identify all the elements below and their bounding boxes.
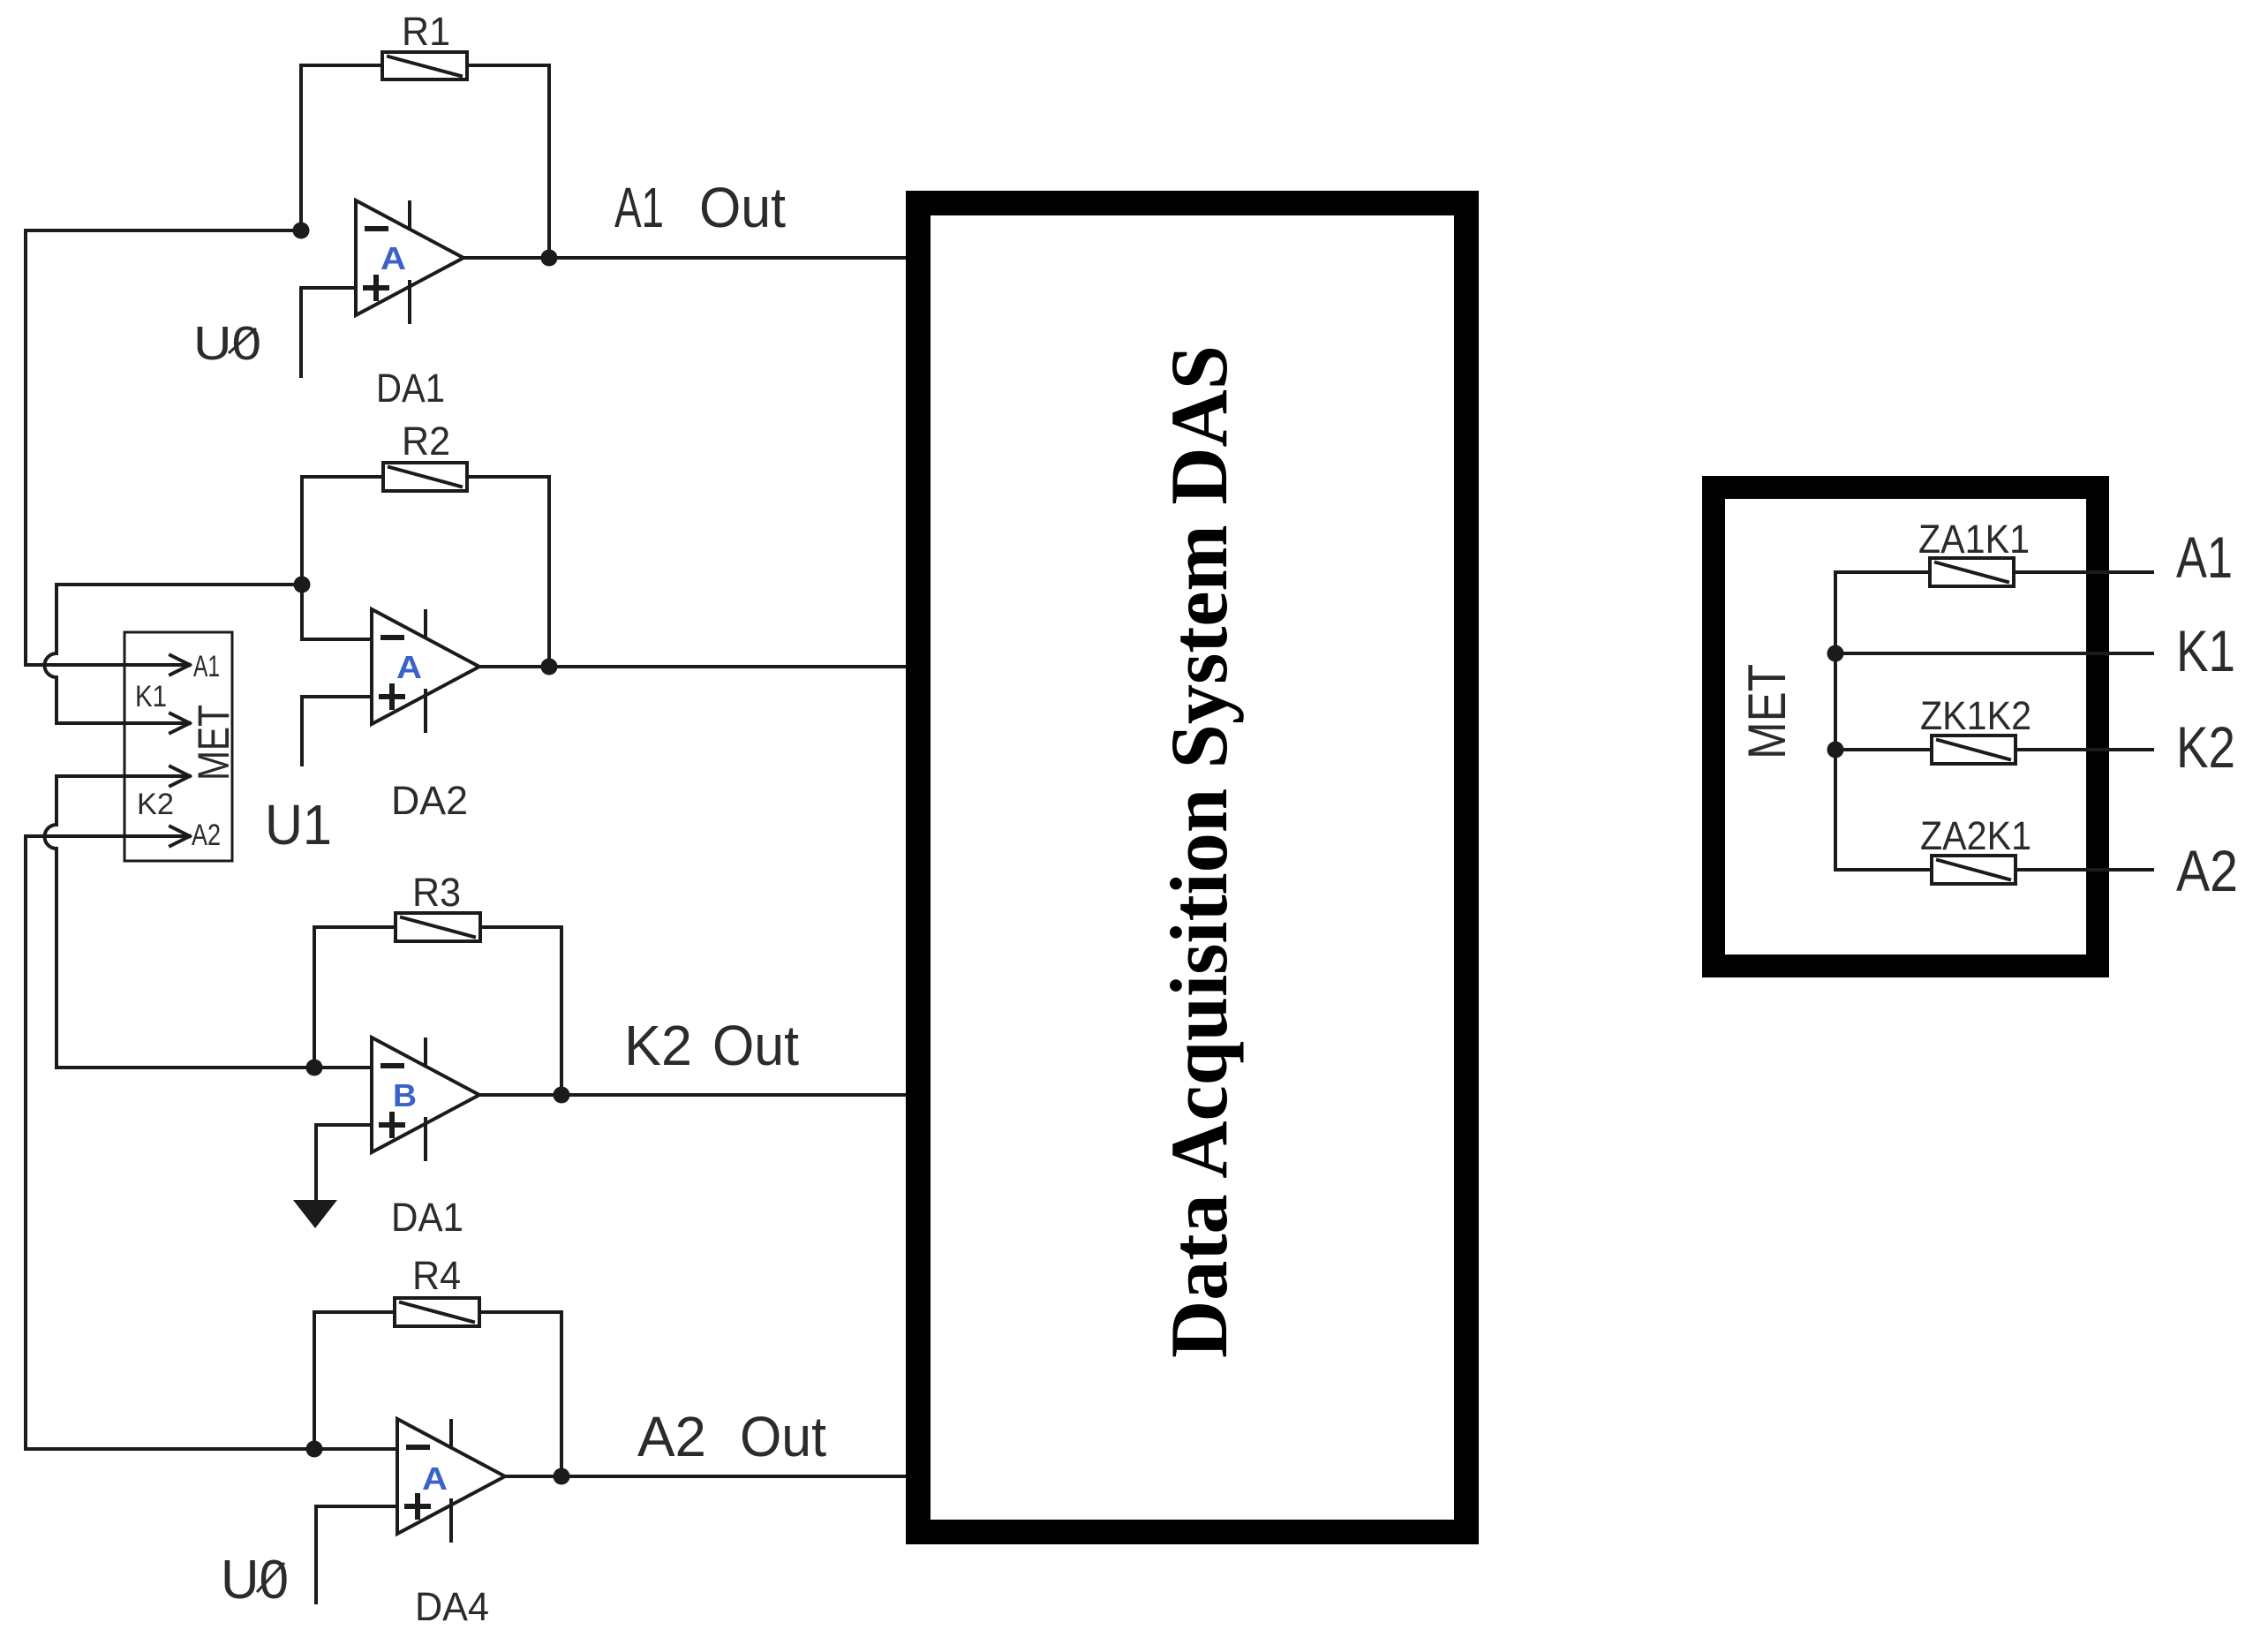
resistor ZK1K2 — [1932, 736, 2016, 764]
op-amp DA3 minus — [383, 1063, 402, 1068]
svg-text:A1: A1 — [2176, 524, 2233, 590]
node DA3 output — [554, 1087, 570, 1104]
svg-text:ZK1K2: ZK1K2 — [1920, 693, 2031, 738]
wire K2 arrow — [57, 774, 186, 778]
wire DA1 inverting input — [26, 229, 301, 232]
wire ZA2K1 row — [1835, 868, 1932, 872]
node DA1 output — [541, 250, 558, 267]
svg-text:Out: Out — [712, 1014, 799, 1077]
svg-text:R4: R4 — [412, 1253, 461, 1298]
svg-text:K2: K2 — [624, 1014, 692, 1077]
op-amp DA3 power pins — [424, 1039, 427, 1159]
wire DA3 output to DAS — [479, 1093, 918, 1097]
wire DA4 inverting input — [26, 1447, 397, 1451]
svg-text:Out: Out — [699, 176, 786, 239]
wire ZA1K1 row — [1835, 570, 1930, 574]
svg-text:K2: K2 — [137, 788, 174, 821]
svg-text:R3: R3 — [412, 870, 461, 915]
op-amp DA1 power pins — [408, 202, 411, 322]
svg-text:Out: Out — [740, 1405, 826, 1468]
wire DA4 non-inverting input U0 — [316, 1506, 397, 1603]
op-amp DA2 plus — [381, 686, 403, 707]
MET box left — [124, 632, 232, 861]
wire DA2 non-inverting input U1 — [302, 697, 372, 765]
op-amp DA4 minus — [409, 1445, 427, 1450]
svg-text:DA4: DA4 — [415, 1584, 489, 1629]
resistor ZA1K1 — [1930, 558, 2014, 586]
wire R4 feedback right — [479, 1312, 561, 1476]
resistor R3 — [396, 913, 480, 941]
resistor R4 — [395, 1298, 479, 1326]
wire R4 feedback left — [314, 1312, 395, 1449]
wire DA3 non-inverting input to ground — [316, 1125, 372, 1200]
svg-text:U0: U0 — [221, 1550, 289, 1611]
resistor R2 — [383, 463, 467, 491]
op-amp DA1 plus — [365, 277, 387, 298]
svg-text:A: A — [381, 240, 406, 276]
wire DA1 output to DAS — [463, 256, 918, 260]
svg-text:DA1: DA1 — [376, 366, 445, 411]
svg-text:R2: R2 — [402, 419, 450, 464]
svg-text:ZA2K1: ZA2K1 — [1920, 813, 2031, 858]
resistor ZA2K1 — [1932, 856, 2016, 884]
svg-text:U0: U0 — [193, 317, 261, 370]
wire DA2 inverting jog — [302, 585, 372, 639]
svg-text:MET: MET — [189, 705, 238, 781]
svg-text:B: B — [393, 1077, 417, 1113]
wire R3 feedback right — [480, 927, 561, 1095]
node DA2 inverting input — [294, 577, 311, 593]
svg-text:R1: R1 — [402, 9, 450, 54]
svg-text:A1: A1 — [193, 650, 220, 683]
svg-text:MET: MET — [1737, 664, 1797, 759]
svg-text:A: A — [422, 1460, 448, 1497]
op-amp DA2 minus — [383, 635, 402, 640]
wire left outer rail bottom — [24, 836, 27, 1449]
node DA2 output — [541, 659, 558, 675]
node DA4 output — [554, 1468, 570, 1485]
op-amp DA1 triangle — [356, 200, 463, 315]
node DA3 inverting input — [306, 1060, 323, 1076]
op-amp DA4 power pins — [449, 1421, 453, 1541]
wire R1 feedback left — [301, 65, 382, 230]
op-amp DA1 minus — [367, 226, 386, 231]
svg-text:ZA1K1: ZA1K1 — [1918, 517, 2030, 562]
wire K1 arrow — [57, 721, 186, 725]
op-amp DA2 triangle — [372, 609, 479, 724]
node K1 bus — [1827, 645, 1844, 662]
svg-text:A: A — [396, 649, 422, 685]
wire inner rail top with hop — [45, 585, 57, 723]
op-amp DA3 plus — [381, 1114, 403, 1136]
node K2 bus — [1827, 742, 1844, 758]
wire DA4 output to DAS — [505, 1475, 918, 1478]
wire DA2 output to DAS — [479, 665, 918, 668]
op-amp DA2 power pins — [424, 611, 427, 731]
wire R2 feedback left — [302, 477, 383, 585]
svg-text:K2: K2 — [2176, 714, 2235, 780]
svg-text:DA1: DA1 — [391, 1195, 463, 1240]
op-amp DA3 triangle — [372, 1038, 479, 1152]
wire R3 feedback left — [314, 927, 396, 1068]
op-amp DA4 plus — [407, 1496, 428, 1517]
svg-text:Data Acquisition System DAS: Data Acquisition System DAS — [1154, 345, 1244, 1358]
wire DA2 inverting input from MET — [57, 583, 302, 586]
wire left outer rail top — [24, 230, 27, 665]
node DA4 inverting input — [306, 1441, 323, 1458]
svg-text:A1: A1 — [614, 176, 664, 239]
wire DA1 non-inverting input — [301, 288, 356, 376]
svg-text:K1: K1 — [2176, 618, 2235, 683]
wire K1 row — [1835, 652, 2152, 655]
wire R2 feedback right — [467, 477, 549, 667]
svg-text:A2: A2 — [637, 1405, 706, 1468]
svg-text:A2: A2 — [2176, 838, 2238, 903]
svg-text:DA2: DA2 — [391, 778, 468, 823]
wire right bus — [1834, 572, 1837, 870]
svg-text:U1: U1 — [265, 793, 332, 856]
wire ZK1K2 row — [1835, 748, 1932, 751]
ground — [293, 1200, 337, 1228]
svg-text:K1: K1 — [135, 680, 167, 713]
node DA1 inverting input — [293, 223, 310, 239]
wire inner rail bottom with hop — [45, 776, 57, 1068]
wire R1 feedback right — [467, 65, 549, 258]
resistor R1 — [382, 52, 467, 79]
svg-text:A2: A2 — [192, 819, 221, 852]
op-amp DA4 triangle — [397, 1419, 505, 1534]
wire A1 arrow — [26, 663, 186, 667]
wire A2 arrow — [26, 834, 186, 838]
wire DA3 inverting input from MET — [57, 1066, 372, 1069]
